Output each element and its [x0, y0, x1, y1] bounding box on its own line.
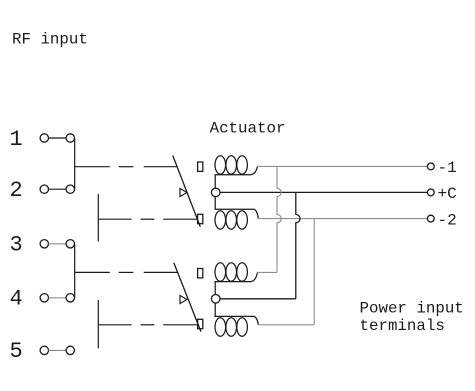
switch S2 lever — [174, 263, 201, 332]
svg-text:terminals: terminals — [360, 317, 445, 335]
svg-text:-1: -1 — [438, 159, 457, 177]
wire vertical -2 to coil L4 — [313, 219, 315, 325]
switch S2 lower linkage wire (solid segment) — [98, 324, 131, 326]
wire bus bar terminals 3-4 — [74, 244, 76, 298]
wire terminal 1 — [49, 137, 67, 139]
RF terminal 1 inner circle — [66, 134, 74, 142]
svg-text:3: 3 — [10, 233, 23, 258]
switch S2 moving contact blade — [97, 300, 99, 348]
switch S2 lower linkage dash — [141, 324, 155, 326]
svg-text:RF input: RF input — [12, 30, 88, 48]
wire terminal 3 — [49, 243, 67, 245]
power terminal -2 circle — [427, 215, 434, 222]
coil L2 (actuator 1 lower winding) — [215, 197, 259, 229]
node actuator 2 common terminal — [211, 295, 220, 304]
switch S2 linkage dash — [119, 271, 134, 273]
RF terminal 5 inner circle — [66, 346, 74, 354]
switch S1 linkage dash — [119, 166, 134, 168]
coil L4 (actuator 2 lower winding) — [215, 303, 259, 336]
RF terminal 2 inner circle — [66, 185, 74, 193]
svg-text:5: 5 — [10, 339, 23, 364]
svg-text:Power input: Power input — [360, 300, 464, 318]
switch S2 linkage to lever — [144, 271, 178, 273]
svg-text:2: 2 — [10, 178, 23, 203]
switch S1 actuation arrow — [180, 188, 187, 196]
switch S1 lower contact pad — [198, 214, 203, 223]
power terminal -1 circle — [427, 163, 434, 170]
wire vertical -1 to coil L3 (with crossover hops) — [277, 166, 281, 272]
RF terminal 2 outer circle — [40, 185, 48, 193]
svg-text:-2: -2 — [438, 211, 457, 229]
switch S1 upper contact pad — [198, 162, 203, 171]
RF terminal 4 inner circle — [66, 294, 74, 302]
wire coil L3 lead to -1 — [257, 271, 277, 273]
wire bus bar terminals 1-2 — [74, 138, 76, 189]
coil L3 (actuator 2 upper winding) — [215, 263, 258, 295]
RF terminal 4 outer circle — [40, 294, 48, 302]
wire coil L4 lead to -2 — [258, 324, 315, 326]
wire terminal 4 — [49, 297, 67, 299]
RF terminal 5 outer circle — [40, 346, 48, 354]
switch S2 upper contact pad — [198, 269, 203, 278]
wire +C power line — [220, 191, 427, 193]
RF terminal 1 outer circle — [40, 134, 48, 142]
coil L1 (actuator 1 upper winding) — [215, 156, 258, 189]
switch S1 linkage to lever — [144, 166, 178, 168]
svg-text:+C: +C — [438, 185, 457, 203]
switch S1 lower linkage dash — [141, 218, 155, 220]
node actuator 1 common terminal — [211, 188, 220, 197]
switch S1 common linkage wire (solid segment) — [75, 166, 110, 168]
switch S1 lower linkage to pad — [163, 218, 197, 220]
wire vertical +C to actuator 2 common (with crossover hop) — [296, 192, 300, 298]
switch S2 actuation arrow — [180, 295, 187, 303]
switch S2 lower linkage to pad — [163, 324, 197, 326]
wire terminal 2 — [49, 188, 67, 190]
label: Power input terminals — [360, 300, 464, 336]
switch S2 lower contact pad — [198, 319, 203, 328]
svg-text:4: 4 — [10, 287, 23, 312]
RF terminal 3 outer circle — [40, 240, 48, 248]
switch S1 lower linkage wire (solid segment) — [98, 218, 131, 220]
switch S1 lever — [173, 155, 201, 226]
svg-text:1: 1 — [10, 127, 23, 152]
svg-text:Actuator: Actuator — [210, 119, 286, 137]
switch S1 moving contact blade — [97, 194, 99, 241]
power terminal +C circle — [427, 189, 434, 196]
wire terminal 5 — [49, 349, 67, 351]
RF terminal 3 inner circle — [66, 240, 74, 248]
switch S2 common linkage wire (solid segment) — [75, 271, 110, 273]
wire -1 power line — [257, 165, 427, 167]
wire -2 power line — [258, 218, 428, 220]
wire actuator 2 common lead to +C — [220, 298, 295, 300]
